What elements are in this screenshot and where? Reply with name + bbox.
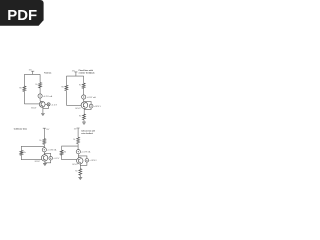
wire base circuit 2 xyxy=(66,104,81,106)
wire RE4 to ground xyxy=(79,175,81,177)
wire top rail circuit 2 xyxy=(66,75,83,77)
wire RE2 to ground xyxy=(83,120,85,122)
resistor RE2 xyxy=(83,114,86,120)
wire RC2 to ammeter circuit 2 xyxy=(83,88,85,95)
svg-text:Re: Re xyxy=(79,116,81,118)
wire ammeter to collector Q1 xyxy=(40,98,41,102)
power supply VCC3 15V xyxy=(43,128,46,131)
ammeter U4 xyxy=(76,150,80,154)
transistor Q3 xyxy=(41,155,47,161)
ground circuit 1 xyxy=(41,114,45,116)
svg-text:+6.10 V: +6.10 V xyxy=(51,104,58,106)
transistor Q2 xyxy=(81,102,88,109)
resistor RC3 xyxy=(43,139,46,145)
power supply VCC4 15V xyxy=(77,128,80,131)
wire voltmeter V4 bottom lead xyxy=(80,162,87,165)
svg-text:+0.187 mA: +0.187 mA xyxy=(87,96,97,99)
svg-text:Rb: Rb xyxy=(19,87,21,89)
wire emitter Q2 to resistor RE2 xyxy=(83,108,85,114)
svg-text:+4.876 V: +4.876 V xyxy=(94,106,102,108)
svg-text:+4.876 V: +4.876 V xyxy=(89,160,97,162)
power supply VCC2 15V xyxy=(74,72,77,76)
wire voltmeter V3 bottom lead xyxy=(45,160,51,163)
wire RB1 to base node xyxy=(23,91,25,104)
voltmeter V2 xyxy=(89,104,93,108)
ground circuit 3 xyxy=(43,164,47,166)
svg-text:Fixed bias: Fixed bias xyxy=(44,73,51,75)
wire voltmeter V4 top lead xyxy=(78,156,87,159)
svg-text:+4.87 V: +4.87 V xyxy=(53,158,60,160)
wire emitter Q4 to resistor RE4 xyxy=(79,164,81,169)
svg-text:Rc: Rc xyxy=(39,140,41,142)
wire voltmeter V3 top lead xyxy=(44,153,50,156)
svg-text:Rb: Rb xyxy=(23,152,25,154)
resistor RE4 xyxy=(79,169,82,176)
ground circuit 2 xyxy=(82,122,86,124)
resistor RB2 xyxy=(65,85,68,90)
svg-text:Rc: Rc xyxy=(35,84,37,86)
wire RC4 to node xyxy=(77,144,79,150)
svg-text:BC547: BC547 xyxy=(72,164,77,166)
resistor RB4 xyxy=(60,150,63,155)
svg-text:Rb: Rb xyxy=(64,152,66,154)
svg-text:PDF: PDF xyxy=(7,8,37,24)
resistor RB1 xyxy=(23,86,26,91)
wire RC1 to ammeter xyxy=(39,88,41,94)
svg-text:+0.291 mA: +0.291 mA xyxy=(43,95,53,98)
wire collector feedback circuit 4 xyxy=(62,146,78,150)
wire base circuit 1 xyxy=(24,103,39,105)
svg-text:BC547: BC547 xyxy=(31,107,36,109)
wire supply to RC4 xyxy=(77,131,79,137)
resistor RC2 xyxy=(82,83,85,88)
ammeter U1 xyxy=(38,94,42,98)
svg-text:BC547: BC547 xyxy=(35,161,40,163)
svg-text:+0.179 mA: +0.179 mA xyxy=(81,151,91,154)
wire voltmeter V2 top lead xyxy=(84,102,91,105)
wire ammeter to collector Q2 xyxy=(83,99,85,102)
svg-text:Fixed bias with: Fixed bias with xyxy=(79,69,94,72)
voltmeter V1 xyxy=(47,103,50,106)
wire top rail circuit 1 xyxy=(24,73,40,75)
wire RB3 to base circuit 3 xyxy=(21,155,41,159)
wire collector feedback circuit 3 xyxy=(21,146,44,150)
wire ammeter to collector Q3 xyxy=(43,152,45,155)
svg-text:Rb: Rb xyxy=(61,87,63,89)
wire voltmeter V1 top lead xyxy=(45,103,47,105)
wire RB4 to base circuit 4 xyxy=(62,155,77,160)
svg-text:emitter feedback: emitter feedback xyxy=(79,72,96,75)
resistor RC1 xyxy=(39,83,42,88)
wire left branch circuit 1 xyxy=(23,74,25,86)
resistor RC4 xyxy=(77,137,80,143)
resistor RB3 xyxy=(20,151,23,156)
ammeter U3 xyxy=(42,148,46,152)
svg-text:BC547: BC547 xyxy=(75,108,80,110)
voltmeter V4 xyxy=(85,159,89,163)
svg-text:Re: Re xyxy=(75,171,77,173)
wire left branch circuit 2 xyxy=(65,76,67,85)
svg-text:Collector bias: Collector bias xyxy=(14,127,28,130)
wire ammeter to collector Q4 xyxy=(77,154,79,158)
wire voltmeter V2 bottom lead xyxy=(84,108,91,109)
transistor Q4 xyxy=(77,158,83,164)
svg-text:Rc: Rc xyxy=(73,139,75,141)
transistor Q1 xyxy=(39,101,45,107)
PDF badge xyxy=(0,0,44,26)
wire emitter Q1 to ground xyxy=(42,107,44,113)
wire RC3 to node xyxy=(43,144,45,148)
wire supply to RC3 xyxy=(43,131,45,139)
wire voltmeter V1 bottom lead xyxy=(43,106,49,109)
power supply VCC1 15V xyxy=(31,71,34,74)
wire RB2 to base node circuit 2 xyxy=(65,91,67,106)
voltmeter V3 xyxy=(49,156,53,160)
svg-text:Rc: Rc xyxy=(79,84,81,86)
wire collector branch circuit 1 xyxy=(39,74,41,82)
wire emitter Q3 to ground xyxy=(44,161,46,164)
ground circuit 4 xyxy=(78,177,82,179)
svg-text:+0.193 mA: +0.193 mA xyxy=(47,149,57,152)
ammeter U2 xyxy=(82,95,86,99)
wire collector branch circuit 2 xyxy=(83,76,85,83)
